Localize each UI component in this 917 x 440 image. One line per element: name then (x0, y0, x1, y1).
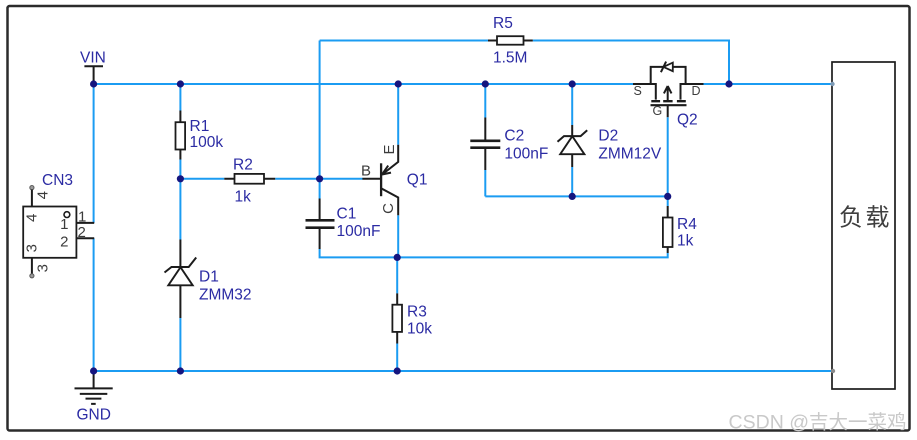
svg-text:G: G (653, 104, 663, 118)
resistor R4 (663, 206, 697, 253)
resistor R2 (224, 157, 275, 206)
svg-text:3: 3 (24, 244, 41, 252)
junction (180.4,84) (177, 80, 184, 87)
svg-text:Q1: Q1 (407, 171, 428, 188)
svg-text:负载: 负载 (839, 205, 892, 232)
load box 负载 (830, 62, 895, 389)
wire D2 bottom (571, 167, 573, 196)
wire mid rail C2-D2-R4 (485, 195, 667, 197)
junction (319.6,178.8) (316, 175, 323, 182)
Q1 collector lead (381, 188, 398, 215)
C1 plates (306, 220, 335, 227)
svg-text:3: 3 (35, 264, 52, 272)
wire C1 top (319, 179, 321, 199)
junction (93.6,84) (90, 80, 97, 87)
wire C2 bottom (484, 170, 486, 196)
resistor R5 (488, 15, 533, 67)
junction (398.2,84) (395, 80, 402, 87)
wire R3 top (396, 257, 398, 293)
Q2 gate lead (667, 105, 669, 117)
capacitor C1 (306, 199, 381, 250)
wire collector rail to R4 (397, 253, 668, 257)
CN3 pin1 lead (76, 222, 94, 224)
wire base rail R2-C1 (275, 178, 319, 180)
svg-text:CN3: CN3 (42, 172, 73, 189)
wire D2 top (571, 84, 573, 125)
zener diode D2 (558, 125, 662, 167)
wire CN3 pin2 to GND rail (93, 238, 95, 371)
CN3 pin3 stub (31, 258, 33, 274)
svg-text:VIN: VIN (80, 50, 106, 67)
svg-text:4: 4 (24, 214, 41, 222)
CN3 pin4 stub (30, 186, 34, 190)
junction (180.4,178.8) (177, 175, 184, 182)
wire VIN column to CN3 pin1 (93, 84, 95, 223)
svg-text:D2: D2 (598, 128, 618, 145)
junction (572.2,84) (569, 80, 576, 87)
wire base rail R1-R2 (180, 178, 224, 180)
CN3 pin1 indicator circle (64, 212, 70, 218)
ground symbol (75, 371, 113, 424)
Q2 body diode loop (651, 67, 686, 84)
svg-text:E: E (381, 144, 398, 154)
junction (93.6,371) (90, 367, 97, 374)
Q2 body diode (663, 63, 672, 72)
svg-text:2: 2 (60, 234, 68, 251)
junction (180.4,371) (177, 367, 184, 374)
wire D1 bottom (179, 318, 181, 371)
svg-text:B: B (361, 162, 371, 179)
wire R5 rail right (533, 41, 729, 85)
svg-text:1k: 1k (677, 233, 694, 250)
CN3 pin2 lead (76, 237, 94, 239)
Q1 base lead (362, 178, 381, 180)
junction (667.7,196.4) (664, 193, 671, 200)
C2 plates (470, 141, 500, 148)
wire R4 top (667, 196, 669, 206)
Q1 base bar (380, 163, 382, 196)
svg-text:D1: D1 (199, 269, 219, 286)
load pin dot top (830, 82, 834, 86)
svg-text:1.5M: 1.5M (493, 50, 527, 67)
wire top rail VIN net (94, 83, 633, 85)
svg-text:C: C (380, 203, 397, 214)
load pin dot bottom (831, 369, 835, 373)
svg-text:S: S (634, 84, 642, 98)
svg-text:100nF: 100nF (504, 146, 548, 163)
svg-text:100k: 100k (190, 134, 224, 151)
wire vertical R5-to-base (319, 41, 321, 179)
wire Q2 gate down (667, 117, 669, 196)
Q2 gate bar (651, 104, 687, 106)
Q2 channel bars (651, 100, 686, 102)
Q2 substrate arrow (664, 86, 672, 100)
svg-text:4: 4 (35, 191, 52, 199)
svg-text:1: 1 (60, 216, 68, 233)
svg-text:CSDN @吉大一菜鸡: CSDN @吉大一菜鸡 (729, 412, 907, 434)
svg-text:1k: 1k (235, 189, 252, 206)
svg-text:100nF: 100nF (337, 223, 381, 240)
junction (397.2,371) (394, 367, 401, 374)
svg-text:R4: R4 (677, 216, 697, 233)
resistor R1 (176, 111, 224, 160)
wire R1 top lead (179, 84, 181, 111)
svg-text:R1: R1 (190, 118, 210, 135)
svg-text:ZMM12V: ZMM12V (598, 146, 662, 163)
CN3 box (23, 207, 76, 258)
wire C2 top (484, 84, 486, 118)
transistor Q1 (PNP) (361, 144, 427, 215)
transistor Q2 (PMOS) (633, 62, 704, 129)
node VIN label (80, 50, 106, 82)
svg-text:R2: R2 (233, 157, 253, 174)
Q1 emitter lead with arrow (382, 145, 398, 175)
svg-text:GND: GND (77, 407, 111, 424)
wire top rail output net (704, 83, 833, 85)
svg-text:10k: 10k (407, 321, 432, 338)
junction (572.2,196.4) (569, 193, 576, 200)
zener diode D1 (165, 240, 252, 319)
wire Q1 collector down (397, 215, 399, 257)
capacitor C2 (470, 118, 548, 171)
svg-text:R5: R5 (493, 15, 513, 32)
wire GND rail (94, 370, 833, 372)
wire R5 rail left (320, 40, 488, 42)
wire D1 top (179, 179, 181, 240)
wire base rail C1-Q1 (320, 178, 363, 180)
svg-text:D: D (692, 84, 701, 98)
junction (729,84) (725, 80, 732, 87)
svg-text:R3: R3 (407, 304, 427, 321)
connector CN3 (23, 172, 94, 278)
svg-text:C2: C2 (504, 128, 524, 145)
wire R3 bottom (396, 344, 398, 372)
svg-text:Q2: Q2 (677, 112, 698, 129)
resistor R3 (392, 293, 432, 343)
wire Q1 emitter (397, 84, 399, 145)
wire C1 bottom to collector rail (320, 249, 398, 257)
svg-text:C1: C1 (337, 206, 357, 223)
svg-text:ZMM32: ZMM32 (199, 287, 252, 304)
junction (485.3,84) (482, 80, 489, 87)
Q2 drain lead (681, 84, 704, 100)
svg-text:2: 2 (78, 224, 86, 241)
Q2 source lead (633, 84, 656, 100)
wire R1 bottom lead (179, 160, 181, 179)
junction (397.2,257.4) (394, 254, 401, 261)
